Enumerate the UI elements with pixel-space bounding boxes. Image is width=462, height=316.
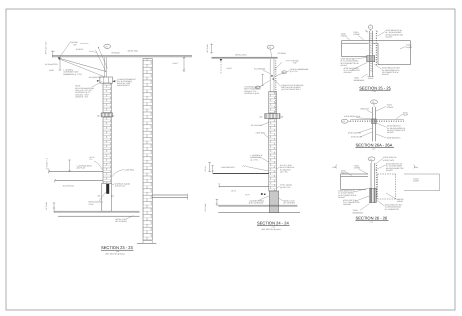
svg-text:RF BEAM: RF BEAM [112,52,120,55]
leader to TOP PAD text [60,42,71,57]
horizontal wall line 2 [342,42,378,44]
svg-text:(BY OTHERS): (BY OTHERS) [115,220,127,223]
svg-text:STRIKE: STRIKE [353,33,360,36]
bubble P1 [368,157,375,161]
svg-text:ADJUST: ADJUST [386,36,394,39]
svg-text:2: 2 [370,26,371,29]
svg-text:SCHEDULE @ R2: SCHEDULE @ R2 [244,92,259,95]
svg-text:(Ø): (Ø) [281,116,284,119]
2F slab line [213,173,269,175]
svg-text:+RF PLAN: +RF PLAN [206,44,209,53]
bubble P6 [282,71,287,74]
svg-text:@ R AT CCC: @ R AT CCC [280,186,291,189]
svg-text:1:10: 1:10 [370,220,373,223]
hatched box on wall [367,56,375,62]
right side dim tick [183,57,186,72]
svg-text:LIGHT: LIGHT [227,67,233,70]
svg-text:1:10: 1:10 [272,225,275,228]
svg-text:BRACKET: BRACKET [361,108,370,111]
svg-text:SECTION 26A - 26A: SECTION 26A - 26A [356,142,393,147]
lower wall open rect [102,183,112,211]
svg-text:SECTION 26 - 26: SECTION 26 - 26 [356,215,388,220]
base line crossing right wall [137,242,156,244]
central wall [371,163,375,203]
svg-text:SECTION 24 - 24: SECTION 24 - 24 [257,221,289,226]
left brick wall upper [103,83,111,113]
wall-top side marks [365,30,378,32]
right room box [378,41,410,65]
svg-text:P2: P2 [372,101,374,104]
svg-text:1:10: 1:10 [373,90,376,93]
svg-text:&TOE PLATE: &TOE PLATE [351,136,363,139]
bubble P2 [371,100,378,104]
roof plan level tick (left end) [51,51,55,58]
right room box dashed [378,174,396,199]
svg-text:ADJUST: ADJUST [382,73,390,76]
left room box [341,174,368,190]
svg-text:EQUIP: EQUIP [403,114,409,117]
svg-text:(Ø): (Ø) [112,114,115,117]
svg-text:W SCREW(S): W SCREW(S) [254,68,266,71]
svg-text:(Ø): (Ø) [111,194,114,197]
svg-text:W x H: W x H [231,190,237,193]
joint hatch inside wall [370,33,373,71]
svg-text:&TOE PLATE: &TOE PLATE [383,159,395,162]
brick wall upper [269,92,277,114]
svg-text:P2: P2 [269,46,271,49]
line 2F level [49,171,103,173]
svg-text:MEMBRANE @ 17 P.C.: MEMBRANE @ 17 P.C. [63,73,82,76]
svg-text:@ 17 P.C.: @ 17 P.C. [290,70,299,73]
svg-text:SECTION 25 - 25: SECTION 25 - 25 [359,85,391,90]
vertical dim with arrows [59,59,61,71]
svg-text:CAVE WALL: CAVE WALL [125,168,135,171]
brick wall lower [269,119,277,191]
elevation marker [220,59,223,61]
dim tick [68,160,70,172]
squiggle arcs [89,51,97,53]
svg-text:(REF SECTION @ WALL): (REF SECTION @ WALL) [106,252,126,255]
svg-text:SEALANT: SEALANT [343,203,352,206]
svg-text:(Ø): (Ø) [97,114,100,117]
floor double line [54,210,140,212]
svg-text:AF GASKETED: AF GASKETED [89,76,102,79]
bubble P6 small [255,86,260,89]
junction hatch box [372,119,377,124]
svg-text:ADJUST: ADJUST [387,131,395,134]
svg-text:LIGHT: LIGHT [49,69,55,72]
svg-text:2(E) PLAN: 2(E) PLAN [77,166,86,169]
leaders to wall [274,71,289,77]
horizontal wall line top [342,40,411,42]
svg-text:P6: P6 [343,120,345,123]
svg-text:BL (2F) PLAN: BL (2F) PLAN [63,184,75,187]
grey column [269,191,278,213]
svg-text:(Ø): (Ø) [260,116,263,119]
svg-text:&TOE WEIGHTS: &TOE WEIGHTS [387,137,402,140]
svg-text:1 ANCHOR ROD: 1 ANCHOR ROD [221,166,235,169]
svg-text:STUD: STUD [89,203,95,206]
left brick wall lower [103,117,111,183]
anchor marks [261,193,263,195]
hatched box in wall [101,113,113,117]
lintel box with cross [100,77,113,83]
bubble 2 [368,25,372,29]
insulation dots column [376,165,378,199]
svg-text:&TOE JOINT W.: &TOE JOINT W. [383,156,397,159]
svg-text:ADJUST: ADJUST [386,169,394,172]
right double line (beam) [152,194,187,196]
floor lines [218,204,297,206]
svg-text:+7.5: +7.5 [89,158,93,161]
bubble P6 [341,119,348,123]
line below 2F [55,180,103,182]
svg-text:(Ø): (Ø) [98,194,101,197]
svg-text:(REF SECTION @ WALL): (REF SECTION @ WALL) [262,228,282,231]
svg-text:ANCHOR BOLT: ANCHOR BOLT [117,84,131,87]
svg-text:26A): 26A) [414,166,418,169]
leader to wall top [96,50,107,72]
dashed insulation row horizontal [350,120,404,122]
central wall (plan) [370,31,373,77]
svg-text:SECTION 23 - 23: SECTION 23 - 23 [101,245,133,250]
svg-text:(BY OTHERS): (BY OTHERS) [283,202,295,205]
svg-text:MEMBRANE: MEMBRANE [353,211,364,214]
svg-text:P2: P2 [105,45,107,48]
svg-text:METAL RAIL: METAL RAIL [128,49,138,52]
elevation marker at x59 [58,57,61,60]
svg-text:EQUIP: EQUIP [413,180,419,183]
svg-text:P1: P1 [370,158,372,161]
svg-text:@ R2 SCHEDULE: @ R2 SCHEDULE [249,202,265,205]
svg-text:W DECK: W DECK [76,48,84,51]
cloud arcs [80,42,88,45]
stem from bubble [370,29,372,31]
svg-text:+1F PLAN: +1F PLAN [45,201,48,210]
insulation dash column [275,61,277,114]
brace diagonals [59,58,106,71]
svg-text:METAL DECK: METAL DECK [235,53,247,56]
svg-text:RC COLUMN: RC COLUMN [251,124,263,127]
svg-text:1:10: 1:10 [372,147,375,150]
wall stem [270,59,274,92]
wall line 2 left [341,176,368,178]
svg-text:@ 17 P.C.: @ 17 P.C. [280,171,289,174]
svg-text:RF PLAN +10.5: RF PLAN +10.5 [45,42,48,55]
svg-text:EQUIP: EQUIP [406,46,412,49]
central wall [372,107,375,141]
svg-text:@ R AT CCC: @ R AT CCC [115,185,126,188]
svg-text:+2F SL: +2F SL [204,166,207,172]
insulation dots column [375,33,377,66]
svg-text:MEMBRANE: MEMBRANE [354,79,365,82]
right brick wall [143,59,152,241]
grey hatched wall bottom [369,188,376,202]
right texts: TOP RAIL [286,59,291,62]
anchor dots at wall [271,75,273,76]
hatched box [265,114,280,119]
svg-text:SEALANT: SEALANT [344,71,353,74]
svg-text:STRIKE: STRIKE [354,167,361,170]
second line [219,186,269,188]
bubble P2 [267,45,274,49]
black bar [106,184,109,194]
left room box [342,41,367,57]
svg-text:@ 17 P.C.: @ 17 P.C. [250,158,259,161]
svg-text:AF GASKETED: AF GASKETED [45,63,58,66]
svg-text:SHEAR: SHEAR [397,200,404,203]
roof deck band [212,57,278,59]
svg-text:GROOVE + PLT: GROOVE + PLT [75,96,89,99]
svg-text:2F PLAN +7.5: 2F PLAN +7.5 [45,158,48,169]
svg-text:STRIKE: STRIKE [387,106,394,109]
svg-text:ADJUST: ADJUST [341,64,349,67]
svg-text:W- CONNECTED: W- CONNECTED [385,208,400,211]
svg-text:RF BEAM: RF BEAM [278,52,286,55]
roof deck band [52,56,192,58]
svg-text:LIGHT: LIGHT [173,62,179,65]
bubble P2 [104,44,111,48]
svg-text:&TOE JOINT W.: &TOE JOINT W. [348,132,362,135]
svg-text:+1F PLAN: +1F PLAN [204,203,207,212]
wall end ticks [367,77,373,78]
svg-text:ADJUST: ADJUST [338,196,346,199]
wall stem above lintel [105,57,107,77]
far right box [404,174,440,191]
svg-text:@ R2 WT ANGLE BOLT: @ R2 WT ANGLE BOLT [281,88,301,91]
vertical dim bracket [261,74,263,85]
